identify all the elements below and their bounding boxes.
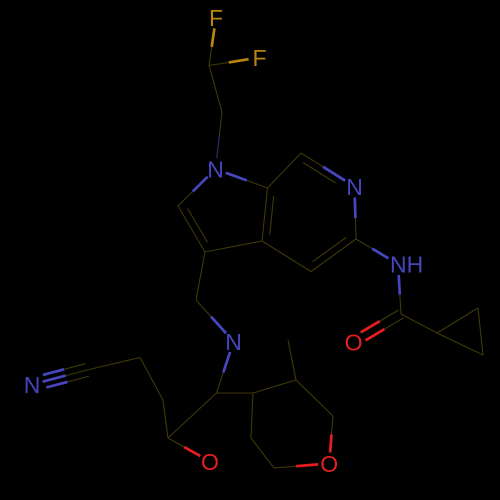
bond Obr-C1t bbox=[330, 416, 333, 453]
svg-text:N: N bbox=[346, 174, 363, 200]
bond Cr2-Co bbox=[163, 400, 168, 438]
bond C4t-C5t bbox=[251, 438, 274, 468]
bond Cco-Ccp1 bbox=[401, 314, 437, 333]
bond Cch2b-Nb bbox=[196, 300, 226, 333]
bond N1-C2 bbox=[178, 177, 208, 206]
bond C3a-C7a bbox=[262, 188, 274, 241]
bond Cco-Oc bbox=[361, 310, 404, 340]
bond C6-NH bbox=[356, 239, 389, 258]
bond C2-C3 bbox=[178, 206, 208, 252]
bond C6-C5 bbox=[311, 237, 356, 271]
bond C2t-Cx bbox=[288, 340, 296, 380]
svg-text:N: N bbox=[24, 372, 41, 398]
bond Cch2a-N1 bbox=[217, 112, 222, 158]
bond C3t-C4t bbox=[251, 393, 253, 438]
svg-text:N: N bbox=[225, 329, 242, 355]
bond Cb-C3t bbox=[217, 392, 254, 394]
bond Co-Obl bbox=[168, 438, 200, 456]
bond C7-N7 bbox=[301, 153, 345, 183]
bond N7-C6 bbox=[355, 198, 356, 240]
bond Cchf2-F2 bbox=[209, 59, 249, 65]
bond C1t-C2t bbox=[296, 380, 333, 416]
bond NH-Cco bbox=[399, 275, 401, 314]
svg-text:N: N bbox=[207, 156, 224, 182]
svg-text:O: O bbox=[320, 451, 338, 477]
bond Nb-Cb bbox=[217, 352, 231, 393]
bond Cr1-Cr2 bbox=[140, 358, 163, 401]
bond Ccp3-Ccp1 bbox=[437, 333, 483, 355]
bond Cb-Co bbox=[168, 393, 217, 438]
bond Ccp1-Ccp2 bbox=[437, 308, 478, 333]
bond Cnit-Cr1 bbox=[89, 358, 140, 370]
svg-text:F: F bbox=[209, 5, 223, 31]
svg-text:O: O bbox=[345, 329, 363, 355]
bond C3-Cch2b bbox=[196, 252, 205, 300]
bond C7a-N1 bbox=[226, 173, 268, 188]
svg-text:NH: NH bbox=[390, 251, 423, 277]
svg-text:O: O bbox=[201, 449, 219, 475]
bond C5t-Obr bbox=[274, 464, 318, 468]
bond C5-C3a bbox=[262, 241, 311, 272]
svg-text:F: F bbox=[252, 45, 266, 71]
bond C7a-C7 bbox=[268, 153, 302, 188]
bond Nnit-Cnit bbox=[43, 364, 89, 388]
bond Cchf2-F1 bbox=[209, 28, 214, 65]
bond C2t-C3t bbox=[253, 380, 296, 393]
bond C3-C3a bbox=[205, 241, 262, 252]
bond Ccp2-Ccp3 bbox=[478, 308, 483, 355]
bond Cchf2-Cch2a bbox=[209, 66, 222, 113]
